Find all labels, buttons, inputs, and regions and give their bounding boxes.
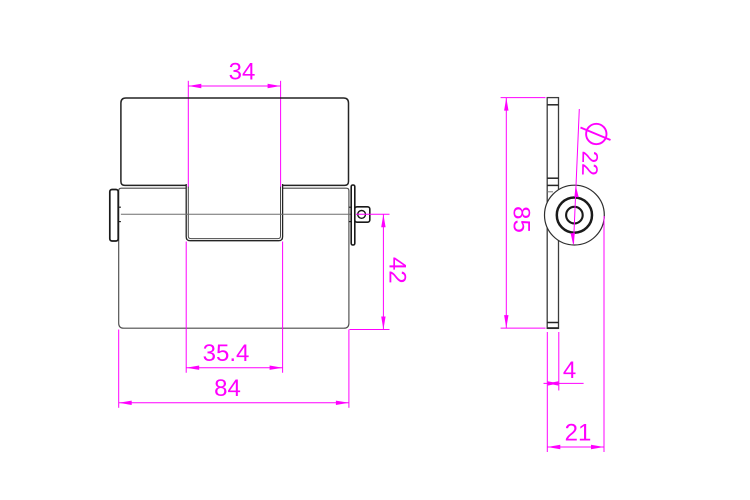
tab hole circle: [358, 211, 366, 219]
side view plate body: [547, 98, 558, 329]
dimension 84: right arrow: [336, 401, 349, 405]
svg-text:35.4: 35.4: [203, 340, 250, 367]
dimension 21: dimension line: [547, 446, 604, 448]
dimension 85: extension line bottom: [501, 327, 546, 329]
side plate bottom edge emphasis: [547, 327, 558, 329]
svg-text:34: 34: [229, 59, 256, 86]
knob outer circle: [545, 185, 605, 245]
dimension 85: dimension line: [505, 98, 507, 329]
dimension 34: extension line right (lower part, behind tongue): [280, 81, 282, 188]
dimension 4: extension line left: [546, 332, 548, 452]
dimension 4: left arrow: [547, 381, 558, 385]
dimension 4: right arrow: [548, 381, 559, 385]
dimension diameter 22: bottom arrow: [571, 233, 575, 245]
right pin tick upper: [349, 206, 351, 208]
svg-text:85: 85: [508, 206, 535, 233]
dimension 34: dimension line: [188, 85, 280, 87]
right pin square tab: [355, 207, 370, 222]
dimension 34: left arrow: [188, 84, 201, 88]
side plate division mid: [547, 184, 558, 186]
dimension diameter 22: leader line: [574, 109, 580, 244]
side plate bottom division: [547, 322, 558, 324]
dimension 84: left arrow: [119, 401, 132, 405]
top hinge leaf plate: [121, 98, 349, 185]
dimension diameter 22: diameter symbol circle: [586, 124, 606, 144]
side plate division small: [547, 191, 553, 193]
dimension 35.4: left arrow: [186, 366, 199, 370]
dimension 42: bottom arrow: [381, 317, 385, 330]
right pin tick lower: [349, 221, 351, 223]
dimension 21: extension line right: [603, 216, 605, 452]
dimension 34: extension line left (lower part, behind tongue): [187, 81, 189, 188]
dimension 85: bottom arrow: [504, 315, 508, 328]
dimension 35.4: extension line left: [185, 242, 187, 373]
left pin tick upper: [118, 206, 121, 208]
left pin tick lower: [118, 221, 121, 223]
svg-text:22: 22: [577, 151, 602, 176]
dimension 42: extension line top: [356, 213, 390, 215]
dimension diameter 22: diameter symbol slash: [581, 128, 611, 141]
dimension 42: extension line bottom: [350, 329, 390, 331]
side plate top division: [547, 104, 558, 106]
svg-text:21: 21: [565, 420, 592, 447]
bottom hinge leaf plate: [119, 188, 349, 328]
knob inner circle: [566, 207, 583, 224]
knob middle circle: [557, 198, 592, 233]
svg-text:4: 4: [563, 357, 576, 384]
dimension 35.4: extension line right: [282, 242, 284, 373]
dimension 85: extension line top: [501, 97, 546, 99]
pin centerline: [121, 213, 354, 215]
right pin bar: [351, 185, 355, 245]
dimension 42: dimension line: [382, 214, 384, 329]
svg-text:42: 42: [384, 257, 411, 284]
dimension 4: dimension line: [544, 382, 584, 384]
dimension 84: extension line right: [348, 330, 350, 408]
left pin end cap: [110, 190, 118, 242]
center tongue outer edge: [186, 184, 282, 241]
dimension 35.4: dimension line: [186, 367, 282, 369]
dimension 35.4: right arrow: [270, 366, 283, 370]
dimension 42: top arrow: [381, 214, 385, 227]
dimension 84: dimension line: [119, 402, 349, 404]
dimension 34: right arrow: [268, 84, 281, 88]
dimension diameter 22: top arrow: [574, 185, 578, 197]
dimension 84: extension line left: [118, 330, 120, 408]
dimension 21: right arrow: [591, 445, 604, 449]
dimension 21: left arrow: [547, 445, 560, 449]
side plate division upper: [547, 177, 558, 179]
svg-text:84: 84: [214, 375, 241, 402]
center tongue inner edge: [188, 187, 280, 239]
dimension 85: top arrow: [504, 98, 508, 111]
dimension 4: extension line right: [558, 332, 560, 391]
